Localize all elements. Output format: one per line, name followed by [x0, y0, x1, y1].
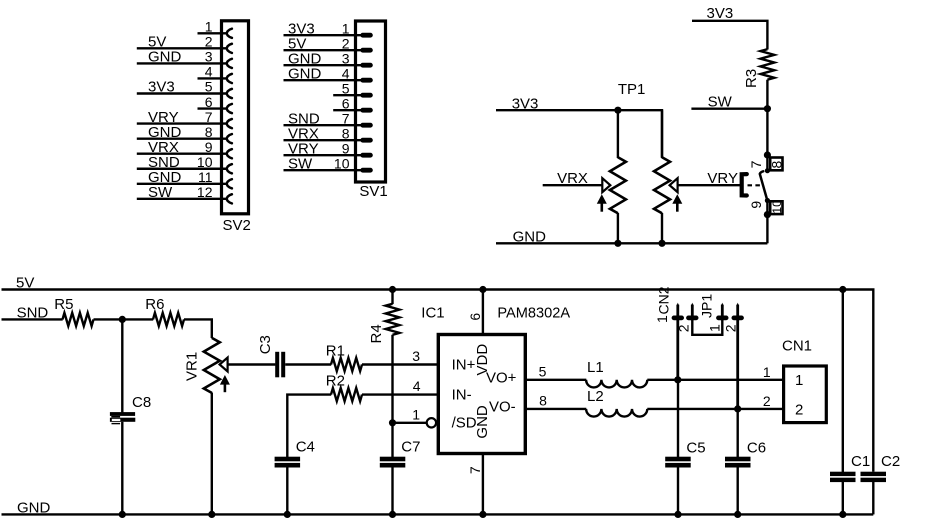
svg-text:GND: GND [513, 229, 547, 246]
svg-text:2: 2 [342, 35, 350, 51]
connector SV1 body [356, 21, 386, 182]
label SV1 [359, 183, 387, 200]
net 5V rail [2, 290, 874, 472]
jumper JP1 pin 1 [716, 303, 728, 321]
svg-text:10: 10 [770, 200, 784, 214]
svg-text:CN1: CN1 [782, 338, 812, 355]
svg-text:/SD: /SD [452, 415, 477, 432]
svg-text:8: 8 [342, 125, 350, 141]
inductor L2 [586, 409, 647, 417]
svg-text:SV1: SV1 [359, 183, 387, 200]
label net VRX [557, 170, 588, 187]
svg-text:1: 1 [795, 372, 803, 389]
label R2 [326, 372, 345, 389]
connector SV2 pin 10 net SND [137, 154, 232, 173]
resistor R4 [386, 290, 400, 423]
label C7 [401, 439, 420, 456]
svg-text:9: 9 [205, 139, 213, 155]
net GND rail [2, 513, 874, 515]
junction GND / C5 [674, 511, 681, 518]
capacitor C4 [275, 457, 301, 515]
junction GND / C7 [389, 511, 396, 518]
junction GND / VRY pot bottom [658, 240, 665, 247]
connector SV2 pin 3 net GND [137, 49, 232, 68]
svg-text:C6: C6 [747, 439, 766, 456]
svg-text:R1: R1 [326, 342, 345, 359]
connector SV1 pin 2 net 5V [284, 35, 373, 52]
connector SV2 pin 1 [198, 19, 232, 38]
connector CN1 pin 2 number (outside) [763, 393, 771, 409]
IC1 pin name VDD [474, 344, 491, 376]
svg-text:IN-: IN- [452, 386, 472, 403]
connector SV2 pin 9 net VRX [137, 139, 232, 158]
jumper JP1 pin 2 number [722, 324, 738, 332]
wire R5 to R6 [94, 318, 154, 320]
svg-text:IC1: IC1 [421, 305, 444, 322]
label R1 [326, 342, 345, 359]
trimmer VR1 [204, 338, 230, 515]
svg-text:VR1: VR1 [183, 352, 200, 381]
IC1 pin 4 number [413, 378, 421, 394]
wire R2 to IC1 pin 4 [362, 393, 438, 395]
capacitor C3 [275, 352, 285, 378]
label net 3V3 (top right) [707, 5, 734, 22]
header CN2 pin 1 number [654, 315, 670, 323]
svg-text:6: 6 [467, 313, 483, 321]
label net GND (bottom) [17, 499, 51, 516]
connector SV1 pin 6 [333, 95, 373, 112]
label PAM8302A [497, 306, 570, 322]
svg-text:7: 7 [342, 110, 350, 126]
svg-text:JP1: JP1 [699, 294, 715, 318]
junction R4 / SD / C7 [389, 419, 396, 426]
IC1 pin name IN- [452, 386, 472, 403]
inductor L1 [586, 380, 647, 388]
junction 5V / C1 [839, 286, 846, 293]
switch actuator bracket [742, 174, 747, 195]
wire C4 to R2 [287, 395, 331, 457]
connector SV2 pin 4 [198, 64, 232, 83]
IC1 pin name /SD [452, 415, 477, 432]
label SV2 [223, 217, 251, 234]
capacitor C8 (polarized) [110, 319, 135, 514]
net GND wire (TP1 section) [496, 242, 767, 244]
svg-text:5V: 5V [16, 275, 34, 292]
connector CN1 pin 1 number (outside) [763, 364, 771, 380]
svg-text:GND: GND [288, 65, 322, 82]
connector SV1 pin 8 net VRX [284, 125, 373, 142]
label C8 [132, 394, 151, 411]
label C4 [296, 439, 315, 456]
junction GND / C4 [284, 511, 291, 518]
label C1 [851, 453, 870, 470]
svg-text:C3: C3 [257, 335, 274, 354]
connector SV2 pin 11 net GND [137, 169, 232, 188]
svg-text:3: 3 [205, 49, 213, 65]
svg-text:R6: R6 [145, 296, 164, 313]
svg-text:3V3: 3V3 [148, 79, 175, 96]
junction L1 / C5 [674, 376, 681, 383]
svg-text:2: 2 [722, 324, 738, 332]
junction switch pin 10 pad [764, 211, 771, 218]
switch lever [760, 168, 770, 203]
IC1 pin 1 number [412, 406, 420, 422]
svg-text:3: 3 [342, 50, 350, 66]
svg-text:1: 1 [654, 315, 670, 323]
svg-text:1: 1 [205, 19, 213, 35]
svg-text:7: 7 [467, 466, 483, 474]
svg-text:6: 6 [205, 94, 213, 110]
svg-text:2: 2 [205, 34, 213, 50]
label net VRY [707, 170, 738, 187]
label R3 [743, 69, 760, 88]
wire C3 to R1 [285, 363, 331, 365]
svg-text:8: 8 [205, 124, 213, 140]
connector SV1 pin 5 [333, 80, 373, 97]
label C6 [747, 439, 766, 456]
svg-text:SW: SW [288, 155, 313, 172]
resistor R1 [331, 358, 362, 371]
label net 5V [16, 275, 34, 292]
svg-text:1: 1 [706, 324, 722, 332]
connector SV2 pin 5 net 3V3 [137, 79, 232, 98]
connector CN1 body [784, 366, 827, 423]
svg-text:SV2: SV2 [223, 217, 251, 234]
svg-text:10: 10 [334, 155, 350, 171]
svg-text:4: 4 [413, 378, 421, 394]
junction GND / VR1 [208, 511, 215, 518]
label net 3V3 (TP1 section) [512, 95, 539, 112]
label net SW [708, 94, 733, 111]
wire VR1 wiper to C3 [228, 363, 276, 365]
svg-text:R3: R3 [743, 69, 760, 88]
label TP1 [618, 81, 646, 98]
label C3 [257, 335, 274, 354]
jumper JP1 pin 2 [732, 303, 744, 409]
svg-text:4: 4 [205, 64, 213, 80]
svg-text:3: 3 [412, 348, 420, 364]
net 3V3 wire (top right) [692, 21, 767, 50]
svg-text:VO+: VO+ [486, 369, 517, 386]
junction 5V / IC1 pin 6 [479, 286, 486, 293]
svg-text:L2: L2 [587, 388, 604, 405]
net 3V3 wire (TP1 section) [496, 110, 662, 157]
capacitor C2 [861, 472, 887, 515]
label net GND (TP1 section) [513, 229, 547, 246]
connector SV2 pin 8 net GND [137, 124, 232, 143]
junction 3V3 / VRX pot top [614, 107, 621, 114]
connector SV2 pin 2 net 5V [137, 34, 232, 53]
connector SV1 pin 1 net 3V3 [284, 20, 373, 37]
svg-text:5: 5 [539, 363, 547, 379]
label R5 [54, 296, 73, 313]
connector SV2 pin 7 net VRY [137, 109, 232, 128]
capacitor C6 [725, 409, 751, 515]
label CN2 [655, 286, 671, 314]
svg-text:10: 10 [197, 154, 213, 170]
junction switch pin 8 pad [764, 151, 771, 158]
svg-text:SND: SND [17, 304, 49, 321]
trimmer TP1 potentiometer VRY half [654, 110, 682, 243]
svg-text:VRY: VRY [707, 170, 738, 187]
wire switch pin 9 to GND [766, 201, 768, 244]
wire R1 to IC1 pin 3 [362, 363, 438, 365]
connector SV2 body [222, 21, 249, 214]
wire CN2 pin 2 to JP1 pin 1 [692, 320, 722, 335]
jumper JP1 pin 1 number [706, 324, 722, 332]
svg-text:C2: C2 [881, 453, 900, 470]
IC1 pin name VO- [489, 399, 516, 416]
resistor R3 [761, 49, 775, 108]
label IC1 [421, 305, 444, 322]
wire SW to switch pin 7 [766, 109, 768, 171]
label R6 [145, 296, 164, 313]
net SW wire [691, 107, 767, 109]
connector CN1 pin 1 number (inside) [795, 372, 803, 389]
wire junction to IC1 pin 1 bubble [393, 422, 427, 424]
switch actuator dashed link [748, 184, 764, 186]
IC1 pin 7 wire (GND) [482, 454, 484, 515]
svg-text:SW: SW [148, 184, 173, 201]
junction SW / R3 [764, 105, 771, 112]
junction GND / C8 [119, 511, 126, 518]
switch pad box pin 10 [770, 200, 784, 214]
IC1 pin 5 number [539, 363, 547, 379]
connector SV1 pin 9 net VRY [284, 140, 373, 157]
op-amp IC1 body [438, 335, 525, 454]
svg-text:2: 2 [795, 402, 803, 419]
svg-text:3V3: 3V3 [512, 95, 539, 112]
connector SV1 pin 3 net GND [284, 50, 373, 67]
label L1 [587, 359, 604, 376]
trimmer TP1 potentiometer VRX half [597, 110, 626, 243]
svg-text:R4: R4 [368, 324, 385, 343]
switch pad box pin 8 [769, 158, 785, 171]
capacitor C1 [830, 290, 856, 515]
wire L2 to CN1 pin 2 [647, 408, 782, 410]
junction 5V / R4 [389, 286, 396, 293]
header CN2 pin 1 [672, 303, 684, 380]
svg-text:7: 7 [205, 109, 213, 125]
IC1 pin 7 number [467, 466, 483, 474]
junction SND / C8 [119, 316, 126, 323]
svg-text:SW: SW [708, 94, 733, 111]
svg-text:PAM8302A: PAM8302A [497, 306, 570, 322]
net VRX wire [543, 184, 603, 186]
wire IC1 pin 5 (VO+) to L1 [527, 379, 587, 381]
svg-text:8: 8 [769, 161, 785, 169]
svg-text:9: 9 [748, 201, 764, 209]
svg-text:C7: C7 [401, 439, 420, 456]
svg-text:1: 1 [412, 406, 420, 422]
connector SV1 pin 4 net GND [284, 65, 373, 82]
svg-text:C8: C8 [132, 394, 151, 411]
junction L2 / C6 [734, 405, 741, 412]
svg-text:1: 1 [763, 364, 771, 380]
capacitor C7 [380, 423, 406, 515]
svg-text:11: 11 [198, 169, 213, 185]
svg-text:2: 2 [676, 324, 692, 332]
connector SV2 pin 12 net SW [137, 184, 232, 203]
connector SV1 pin 10 net SW [284, 155, 373, 172]
svg-text:L1: L1 [587, 359, 604, 376]
svg-text:9: 9 [342, 140, 350, 156]
svg-text:C1: C1 [851, 453, 870, 470]
svg-text:TP1: TP1 [618, 81, 646, 98]
svg-text:VRX: VRX [557, 170, 588, 187]
svg-text:VO-: VO- [489, 399, 516, 416]
svg-text:R5: R5 [54, 296, 73, 313]
resistor R2 [331, 388, 362, 401]
junction GND / VRX pot bottom [614, 240, 621, 247]
svg-text:5: 5 [205, 79, 213, 95]
svg-text:2: 2 [763, 393, 771, 409]
svg-text:5: 5 [342, 80, 350, 96]
svg-text:3V3: 3V3 [707, 5, 734, 22]
svg-text:4: 4 [342, 65, 350, 81]
svg-text:1: 1 [342, 20, 350, 36]
IC1 pin name VO+ [486, 369, 517, 386]
label CN1 [782, 338, 812, 355]
connector SV1 pin 7 net SND [284, 110, 373, 127]
IC1 pin name IN+ [452, 356, 476, 373]
svg-text:8: 8 [539, 393, 547, 409]
IC1 pin 6 wire (VDD) [482, 290, 484, 335]
wire R6 to VR1 [184, 319, 212, 338]
label L2 [587, 388, 604, 405]
svg-text:IN+: IN+ [452, 356, 476, 373]
capacitor C5 [665, 380, 691, 515]
IC1 pin 6 number [467, 313, 483, 321]
label VR1 [183, 352, 200, 381]
svg-text:C5: C5 [686, 439, 705, 456]
label C5 [686, 439, 705, 456]
switch pin 9 number [748, 201, 764, 209]
resistor R6 [153, 313, 184, 326]
label net SND [17, 304, 49, 321]
svg-text:7: 7 [748, 160, 764, 168]
resistor R5 [63, 313, 94, 326]
connector CN1 pin 2 number (inside) [795, 402, 803, 419]
net VRY wire [678, 184, 741, 186]
wire IC1 pin 8 (VO-) to L2 [527, 408, 587, 410]
net SND wire [2, 318, 63, 320]
wire L1 to CN1 pin 1 [647, 379, 782, 381]
junction GND / C1 [839, 511, 846, 518]
label JP1 [699, 294, 715, 318]
svg-text:12: 12 [197, 184, 213, 200]
IC1 pin 1 inversion bubble [427, 418, 436, 427]
label C2 [881, 453, 900, 470]
connector SV2 pin 6 [198, 94, 232, 113]
junction GND / C6 [734, 511, 741, 518]
IC1 pin name GND [474, 405, 491, 439]
IC1 pin 3 number [412, 348, 420, 364]
svg-text:GND: GND [17, 499, 51, 516]
switch pin 7 number [748, 160, 764, 168]
IC1 pin 8 number [539, 393, 547, 409]
label R4 [368, 324, 385, 343]
junction GND / IC1 pin 7 [479, 511, 486, 518]
header CN2 pin 2 number [676, 324, 692, 332]
svg-text:GND: GND [148, 49, 182, 66]
svg-text:C4: C4 [296, 439, 315, 456]
svg-text:CN2: CN2 [655, 286, 671, 314]
svg-text:R2: R2 [326, 372, 345, 389]
svg-text:6: 6 [342, 95, 350, 111]
header CN2 pin 2 [686, 303, 698, 321]
